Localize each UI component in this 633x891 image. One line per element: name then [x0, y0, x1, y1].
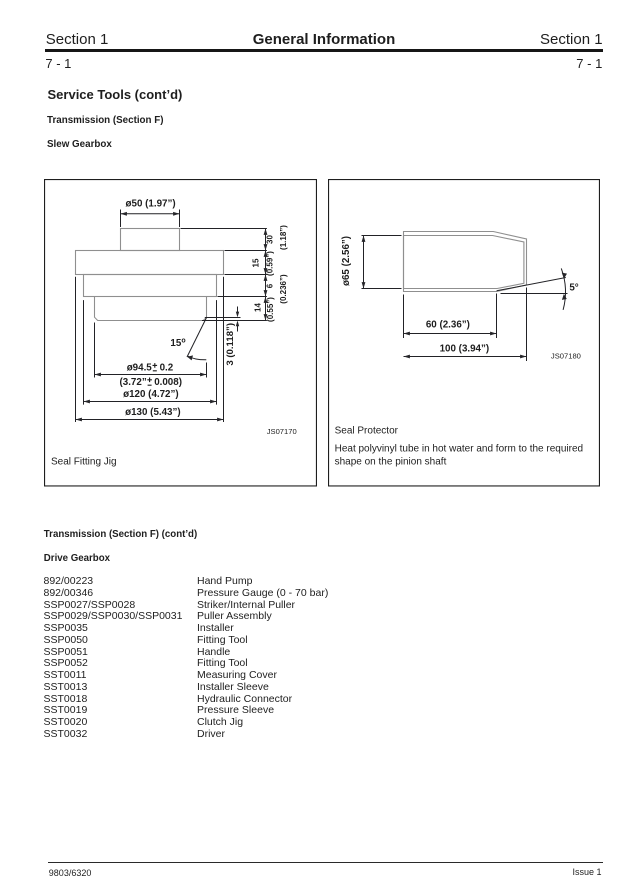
svg-text:60 (2.36”): 60 (2.36”): [425, 320, 469, 331]
o65 dim line: [362, 236, 364, 289]
dim o50 extension lines: [121, 210, 180, 228]
svg-text:(1.18”): (1.18”): [279, 225, 288, 250]
svg-text:(0.59”): (0.59”): [265, 251, 274, 276]
dim 3 arrow stems: [237, 307, 239, 332]
arrowheads 60: [403, 332, 409, 336]
svg-text:JS07170: JS07170: [267, 427, 297, 436]
figure border: [328, 180, 599, 486]
part: step o120: [84, 275, 217, 297]
svg-text:(0.55”): (0.55”): [266, 297, 275, 322]
o94.5 dim line: [95, 374, 207, 376]
5 deg arc: [561, 268, 565, 310]
header: [46, 32, 109, 47]
right dim column extension lines: [181, 229, 267, 321]
arrowheads o120: [84, 400, 90, 404]
tube outer outline: [403, 232, 526, 292]
part: sleeve o94.5 with chamfer: [95, 297, 207, 321]
arrowheads o65: [361, 236, 365, 242]
5 deg angled line: [496, 278, 565, 291]
arrowheads o50: [121, 212, 127, 216]
part: flange o130: [76, 251, 224, 275]
svg-text:15: 15: [252, 258, 261, 267]
figure border: [45, 180, 317, 486]
15 deg diagonal: [187, 317, 207, 357]
arrowheads o130: [76, 418, 82, 422]
footer: [48, 862, 603, 863]
arrowheads 100: [403, 355, 409, 359]
arrowheads dim3 outside pair: [236, 312, 239, 318]
svg-text:JS07180: JS07180: [550, 352, 580, 361]
svg-text:(0.236”): (0.236”): [279, 274, 288, 304]
plus-minus of o94.5 label: [153, 363, 158, 371]
arrowheads o94.5: [95, 373, 101, 377]
100 dim line: [403, 356, 526, 358]
arrowhead 15deg arc: [187, 355, 193, 360]
100 extension line: [525, 288, 527, 362]
15 deg arc: [188, 356, 207, 360]
o94.5 extension lines: [95, 323, 207, 378]
svg-text:6: 6: [265, 283, 274, 288]
svg-text:30: 30: [265, 235, 274, 244]
part: top cylinder o50: [121, 229, 180, 251]
60 dim line: [403, 333, 496, 335]
60 extension lines: [403, 294, 496, 339]
svg-text:ø65 (2.56”): ø65 (2.56”): [340, 236, 351, 286]
tube inner wall: [403, 236, 523, 289]
parts table: [44, 576, 94, 587]
o120 extension lines: [84, 300, 217, 405]
svg-text:0.2: 0.2: [160, 363, 174, 374]
o130 extension lines: [76, 277, 224, 422]
o130 dim line: [76, 419, 224, 421]
svg-text:100 (3.94”): 100 (3.94”): [439, 344, 489, 355]
arrowheads right chained column: [264, 229, 268, 235]
dim 3 upper line: [205, 317, 241, 319]
headings: [48, 88, 183, 101]
svg-text:Heat polyvinyl tube in hot wat: Heat polyvinyl tube in hot water and for…: [334, 444, 582, 455]
o120 dim line: [84, 401, 217, 403]
svg-text:0.008): 0.008): [154, 377, 182, 388]
svg-text:ø130 (5.43”): ø130 (5.43”): [125, 407, 181, 418]
svg-text:shape on the pinion shaft: shape on the pinion shaft: [334, 456, 446, 467]
right chained dimension line: [265, 229, 267, 321]
5 deg horizontal reference: [500, 293, 567, 295]
svg-text:5°: 5°: [569, 282, 578, 293]
left figure : Seal Fitting Jig: [44, 179, 317, 487]
svg-text:15o: 15o: [170, 338, 185, 350]
svg-text:Seal Protector: Seal Protector: [334, 426, 398, 437]
arrowheads 5deg arc: [561, 273, 566, 279]
lower headings: [44, 530, 197, 540]
svg-text:3 (0.118”): 3 (0.118”): [225, 323, 236, 366]
svg-text:ø120 (4.72”): ø120 (4.72”): [123, 389, 179, 400]
svg-text:Seal Fitting Jig: Seal Fitting Jig: [51, 456, 117, 467]
svg-text:14: 14: [254, 303, 263, 312]
svg-text:(3.72”: (3.72”: [120, 377, 147, 388]
plus-minus of 3.72 label: [147, 378, 152, 386]
svg-text:ø94.5: ø94.5: [127, 363, 153, 374]
dim o50 line: [121, 213, 180, 215]
o65 extension lines: [361, 236, 401, 289]
right figure : Seal Protector: [328, 179, 600, 487]
svg-text:ø50 (1.97”): ø50 (1.97”): [126, 199, 176, 210]
